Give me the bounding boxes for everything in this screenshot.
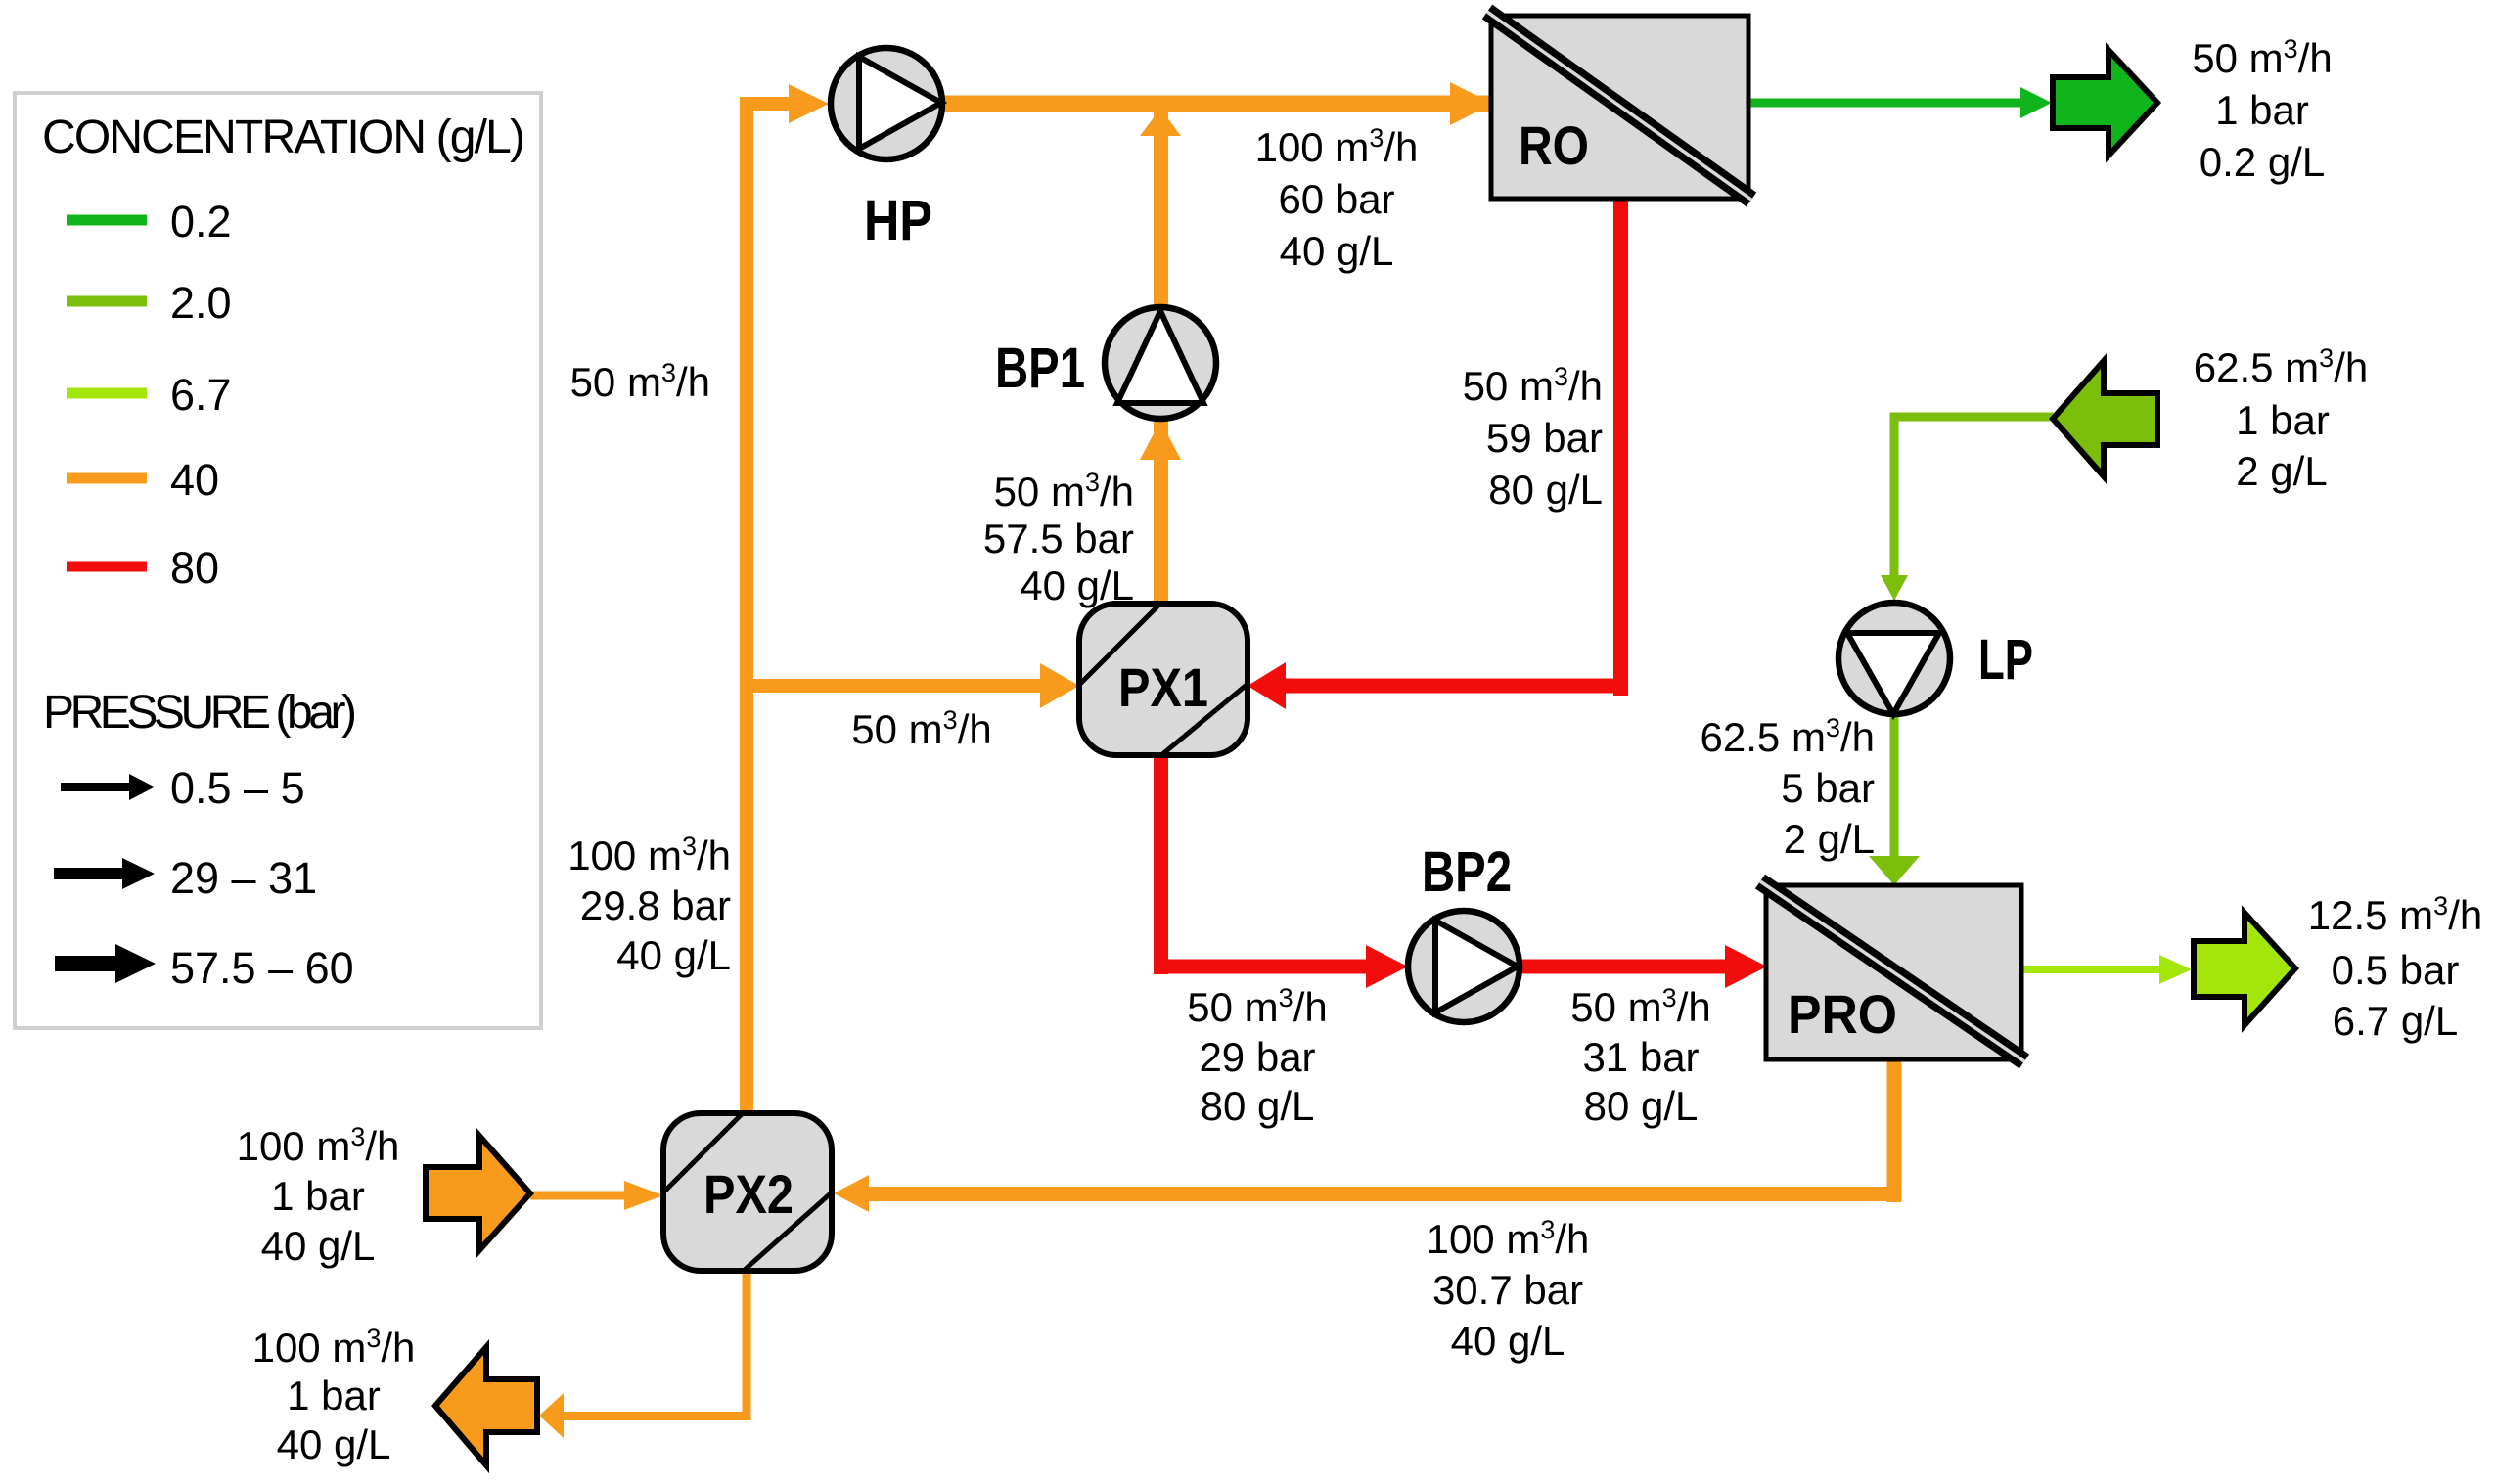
wire red PX1 down — [1154, 755, 1168, 974]
wire branch to PX1 — [740, 679, 1040, 693]
svg-text:50 m3/h: 50 m3/h — [1463, 362, 1603, 409]
wire green2 LP to PRO — [1890, 714, 1899, 861]
membrane PRO — [1760, 881, 2024, 1061]
svg-text:5 bar: 5 bar — [1781, 765, 1875, 811]
svg-text:80: 80 — [170, 543, 219, 593]
svg-text:50 m3/h: 50 m3/h — [2192, 34, 2332, 81]
label brine out 100 m3/h 1 bar 40 g/L — [252, 1324, 416, 1467]
svg-text:2.0: 2.0 — [170, 278, 232, 328]
label permeate 50 m3/h 1 bar 0.2 g/L — [2192, 34, 2332, 185]
svg-text:50 m3/h: 50 m3/h — [570, 358, 710, 405]
pump BP1 — [1105, 307, 1216, 419]
svg-text:6.7 g/L: 6.7 g/L — [2333, 998, 2458, 1044]
svg-text:0.5 – 5: 0.5 – 5 — [170, 763, 305, 813]
wire red BP2 to PRO — [1520, 960, 1725, 974]
legend swatch 6.7 — [67, 388, 147, 399]
svg-text:29.8 bar: 29.8 bar — [580, 882, 731, 928]
wire green2 vertical to LP — [1890, 413, 1899, 579]
svg-text:31 bar: 31 bar — [1582, 1034, 1699, 1080]
wire red to BP2 — [1154, 960, 1366, 974]
wire orange PRO down — [1887, 1059, 1902, 1202]
svg-text:2 g/L: 2 g/L — [2236, 448, 2327, 494]
pressure exchanger PX1 — [1079, 604, 1247, 755]
svg-text:62.5 m3/h: 62.5 m3/h — [1701, 713, 1875, 760]
wire PX2 bottom horizontal out — [562, 1412, 751, 1420]
svg-text:100 m3/h: 100 m3/h — [1427, 1215, 1590, 1262]
wire HP to RO — [942, 96, 1493, 112]
label left stack 100 m3/h 29.8 bar 40 g/L — [567, 832, 731, 978]
svg-text:0.5 bar: 0.5 bar — [2332, 947, 2460, 993]
svg-text:80 g/L: 80 g/L — [1584, 1083, 1699, 1129]
wire feed vertical left (PX2 top to HP corner) — [740, 97, 753, 1113]
svg-text:40 g/L: 40 g/L — [1451, 1318, 1565, 1364]
membrane RO — [1487, 12, 1751, 200]
wire BP1 riser upper — [1154, 110, 1168, 309]
svg-text:62.5 m3/h: 62.5 m3/h — [2194, 343, 2368, 390]
label feed 100 m3/h 1 bar 40 g/L — [237, 1122, 400, 1269]
legend arrow 0.5-5 — [61, 774, 155, 800]
wire orange PRO to PX2 — [869, 1187, 1902, 1201]
svg-text:HP: HP — [864, 189, 932, 252]
svg-text:BP1: BP1 — [995, 337, 1085, 400]
legend swatch 2.0 — [67, 296, 147, 307]
svg-text:1 bar: 1 bar — [2215, 87, 2309, 133]
wire red RO down — [1613, 199, 1628, 696]
label BP1 stream 50 m3/h 57.5 bar 40 g/L — [983, 468, 1134, 608]
block arrow permeate out (green) — [2053, 50, 2157, 156]
legend swatch 80 — [67, 562, 147, 572]
pump LP — [1838, 603, 1950, 714]
svg-text:29 bar: 29 bar — [1199, 1034, 1315, 1080]
svg-text:PX2: PX2 — [703, 1163, 794, 1225]
svg-text:6.7: 6.7 — [170, 370, 232, 420]
wire feed thin into PX2 — [530, 1192, 625, 1200]
block arrow PRO product (lightgreen) — [2194, 913, 2295, 1025]
wire lightgreen PRO permeate — [2021, 966, 2160, 973]
svg-text:59 bar: 59 bar — [1486, 415, 1603, 461]
block arrow dilute inlet (green2, pointing left) — [2053, 361, 2157, 476]
svg-text:50 m3/h: 50 m3/h — [1570, 983, 1710, 1030]
svg-text:RO: RO — [1519, 114, 1589, 176]
svg-text:50 m3/h: 50 m3/h — [994, 468, 1134, 515]
label PRO loop 100 m3/h 30.7 bar 40 g/L — [1427, 1215, 1590, 1364]
svg-text:57.5 bar: 57.5 bar — [983, 516, 1134, 562]
svg-text:50 m3/h: 50 m3/h — [1187, 983, 1327, 1030]
svg-text:PRO: PRO — [1788, 983, 1897, 1045]
svg-text:PX1: PX1 — [1118, 656, 1208, 718]
svg-text:30.7 bar: 30.7 bar — [1432, 1267, 1583, 1313]
svg-text:40: 40 — [170, 455, 219, 505]
svg-text:0.2: 0.2 — [170, 197, 232, 247]
svg-text:100 m3/h: 100 m3/h — [252, 1324, 416, 1371]
legend swatch 0.2 — [67, 215, 147, 226]
svg-text:0.2 g/L: 0.2 g/L — [2200, 139, 2325, 185]
svg-text:100 m3/h: 100 m3/h — [1255, 123, 1419, 170]
svg-text:100 m3/h: 100 m3/h — [237, 1122, 400, 1169]
svg-text:29 – 31: 29 – 31 — [170, 853, 317, 903]
svg-text:80 g/L: 80 g/L — [1201, 1083, 1315, 1129]
legend box — [15, 93, 541, 1028]
svg-text:80 g/L: 80 g/L — [1488, 467, 1603, 513]
svg-text:100 m3/h: 100 m3/h — [567, 832, 731, 878]
label dilute inlet 62.5 m3/h 1 bar 2 g/L — [2194, 343, 2368, 494]
svg-text:1 bar: 1 bar — [271, 1173, 365, 1219]
legend arrow 57.5-60 — [55, 944, 156, 983]
label PRO product 12.5 m3/h 0.5 bar 6.7 g/L — [2308, 891, 2482, 1044]
legend arrow 29-31 — [54, 858, 155, 889]
wire green2 horizontal from inlet arrow — [1890, 413, 2054, 422]
block arrow brine out (orange, pointing left) — [435, 1347, 537, 1465]
svg-text:40 g/L: 40 g/L — [277, 1421, 391, 1467]
svg-text:1 bar: 1 bar — [287, 1372, 381, 1418]
svg-text:1 bar: 1 bar — [2236, 397, 2330, 443]
pump HP — [831, 48, 942, 159]
svg-text:40 g/L: 40 g/L — [261, 1223, 376, 1269]
label BP2-PRO 50 m3/h 31 bar 80 g/L — [1570, 983, 1710, 1129]
block arrow feed (orange) — [426, 1136, 530, 1250]
svg-text:BP2: BP2 — [1422, 840, 1512, 904]
wire green RO permeate — [1748, 99, 2020, 108]
svg-text:PRESSURE (bar): PRESSURE (bar) — [43, 687, 357, 739]
wire BP1 riser lower (PX1 to BP1) — [1154, 420, 1168, 604]
pressure exchanger PX2 — [663, 1113, 832, 1271]
svg-text:LP: LP — [1978, 628, 2033, 692]
svg-text:CONCENTRATION (g/L): CONCENTRATION (g/L) — [42, 112, 525, 163]
svg-text:40 g/L: 40 g/L — [1280, 228, 1394, 274]
pump BP2 — [1408, 911, 1520, 1022]
svg-text:12.5 m3/h: 12.5 m3/h — [2308, 891, 2482, 938]
legend swatch 40 — [67, 473, 147, 484]
wire PX2 down — [743, 1271, 751, 1420]
label PX1-BP2 50 m3/h 29 bar 80 g/L — [1187, 983, 1327, 1129]
svg-text:40 g/L: 40 g/L — [1020, 562, 1134, 608]
label RO feed 100 m3/h 60 bar 40 g/L — [1255, 123, 1419, 274]
svg-text:2 g/L: 2 g/L — [1784, 816, 1875, 862]
svg-text:60 bar: 60 bar — [1278, 176, 1394, 222]
wire red into PX1 — [1286, 679, 1628, 694]
svg-text:57.5 – 60: 57.5 – 60 — [170, 943, 354, 993]
label LP stream 62.5 m3/h 5 bar 2 g/L — [1701, 713, 1875, 862]
label RO concentrate 50 m3/h 59 bar 80 g/L — [1463, 362, 1603, 513]
svg-text:50 m3/h: 50 m3/h — [851, 705, 991, 752]
svg-text:40 g/L: 40 g/L — [616, 932, 731, 978]
wire top-left horizontal into HP — [740, 97, 791, 111]
